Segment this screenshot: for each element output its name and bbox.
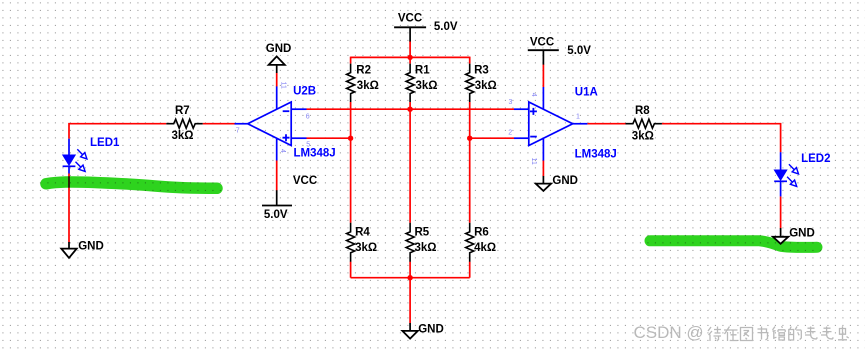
wire: LED1 cathode to GND bbox=[68, 174, 70, 243]
svg-text:R1: R1 bbox=[415, 65, 430, 77]
svg-text:7: 7 bbox=[236, 128, 240, 135]
wire: R7 to LED1 corner bbox=[69, 124, 166, 139]
svg-text:LED1: LED1 bbox=[90, 137, 120, 149]
junction: R2 column on U2B plus stub bbox=[348, 136, 353, 141]
svg-text:11: 11 bbox=[279, 82, 286, 89]
wire: R4 bottom stub bbox=[350, 262, 352, 278]
LED LED1 bbox=[63, 137, 120, 174]
svg-text:3kΩ: 3kΩ bbox=[172, 130, 194, 142]
svg-text:4kΩ: 4kΩ bbox=[474, 242, 496, 254]
svg-text:R4: R4 bbox=[355, 227, 370, 239]
wire: top bus R2-R3 bbox=[351, 56, 470, 58]
svg-text:VCC: VCC bbox=[293, 175, 317, 187]
op-amp U2B LM348J bbox=[235, 82, 336, 161]
wire: bottom bus to GND bbox=[409, 278, 411, 324]
svg-text:R7: R7 bbox=[175, 105, 190, 117]
svg-text:3kΩ: 3kΩ bbox=[475, 80, 497, 92]
svg-text:3kΩ: 3kΩ bbox=[415, 242, 437, 254]
svg-text:4: 4 bbox=[530, 93, 537, 97]
wire: U2B output to R7 bbox=[203, 123, 235, 125]
svg-text:VCC: VCC bbox=[398, 12, 422, 24]
svg-text:R5: R5 bbox=[415, 227, 430, 239]
ground GND below LED1 bbox=[61, 240, 103, 258]
svg-text:GND: GND bbox=[552, 175, 578, 187]
wire: R1 to R5 column bbox=[409, 102, 411, 223]
svg-text:11: 11 bbox=[530, 158, 537, 165]
wire: U2B top power to GND bbox=[276, 73, 278, 87]
wire: U1A minus stub from R3 column bbox=[470, 137, 514, 139]
power VCC 5.0V below U2B bbox=[262, 175, 317, 221]
ground GND bottom middle bbox=[402, 323, 443, 339]
resistor R6 4kOhm bbox=[466, 223, 496, 262]
power VCC 5.0V top middle bbox=[394, 12, 458, 41]
watermark chinese characters (drawn strokes) bbox=[708, 326, 849, 341]
svg-text:4: 4 bbox=[279, 149, 286, 153]
svg-text:GND: GND bbox=[78, 240, 104, 252]
junction: R3 column on U1A minus stub bbox=[467, 136, 472, 141]
svg-text:U2B: U2B bbox=[293, 86, 316, 98]
wire: U2B bottom power to VCC bbox=[276, 160, 278, 190]
svg-text:LM348J: LM348J bbox=[575, 149, 617, 161]
svg-text:6: 6 bbox=[306, 113, 310, 120]
wire: R2 to R4 column bbox=[350, 102, 352, 223]
resistor R3 3kOhm bbox=[466, 64, 497, 102]
svg-text:2: 2 bbox=[508, 130, 512, 137]
svg-text:5.0V: 5.0V bbox=[434, 21, 458, 33]
wire: R8 to LED2 corner bbox=[662, 124, 781, 153]
svg-text:R6: R6 bbox=[474, 227, 489, 239]
wire: bus U2B minus to U1A plus bbox=[307, 108, 515, 110]
wire: R5 bottom stub bbox=[409, 262, 411, 278]
ground GND below LED2 bbox=[773, 227, 815, 244]
ground GND above U2B bbox=[266, 43, 292, 73]
annotation: green highlighter stroke right bbox=[650, 241, 817, 248]
resistor R1 3kOhm bbox=[406, 64, 437, 102]
svg-text:3kΩ: 3kΩ bbox=[416, 80, 438, 92]
svg-text:R2: R2 bbox=[356, 65, 371, 77]
svg-text:CSDN @: CSDN @ bbox=[634, 323, 704, 342]
svg-text:U1A: U1A bbox=[575, 87, 598, 99]
svg-text:GND: GND bbox=[266, 43, 292, 55]
wire: bottom bus R4-R6 bbox=[351, 277, 470, 279]
resistor R7 3kOhm bbox=[166, 105, 202, 142]
svg-text:5.0V: 5.0V bbox=[264, 209, 288, 221]
svg-text:5.0V: 5.0V bbox=[567, 45, 591, 57]
resistor R2 3kOhm bbox=[347, 64, 379, 102]
power VCC 5.0V above U1A bbox=[528, 36, 591, 64]
svg-text:3: 3 bbox=[509, 99, 513, 106]
resistor R5 3kOhm bbox=[406, 223, 436, 262]
svg-text:GND: GND bbox=[418, 324, 444, 336]
wire: U1A output to R8 bbox=[587, 123, 625, 125]
wire: U2B plus stub to R2 column bbox=[307, 137, 351, 139]
svg-text:LED2: LED2 bbox=[801, 153, 830, 165]
wire: R1 top stub bbox=[409, 57, 411, 64]
wire: R3 top stub bbox=[469, 57, 471, 64]
wire: LED2 cathode to GND bbox=[780, 196, 782, 228]
annotation: green highlighter stroke left bbox=[46, 182, 217, 188]
svg-text:1: 1 bbox=[576, 114, 580, 121]
ground GND below U1A bbox=[536, 175, 578, 191]
LED LED2 bbox=[774, 152, 830, 196]
junction: R1 on middle bus bbox=[407, 107, 412, 112]
wire: R3 to R6 column bbox=[469, 102, 471, 223]
svg-text:VCC: VCC bbox=[530, 36, 554, 48]
svg-text:3kΩ: 3kΩ bbox=[357, 80, 379, 92]
op-amp U1A LM348J bbox=[508, 87, 617, 165]
resistor R8 3kOhm bbox=[626, 105, 662, 143]
svg-text:R8: R8 bbox=[635, 105, 650, 117]
junction: R5 on bottom bus bbox=[407, 275, 412, 280]
svg-text:LM348J: LM348J bbox=[294, 148, 336, 160]
svg-text:R3: R3 bbox=[474, 65, 489, 77]
wire: U1A top power to VCC bbox=[542, 64, 544, 87]
svg-text:3kΩ: 3kΩ bbox=[632, 131, 654, 143]
junction: VCC on top bus bbox=[407, 55, 412, 60]
watermark CSDN bbox=[634, 323, 704, 342]
wire: R2 top stub bbox=[350, 57, 352, 64]
svg-text:GND: GND bbox=[789, 227, 815, 239]
resistor R4 3kOhm bbox=[347, 223, 378, 262]
wire: VCC stem to top bus bbox=[409, 41, 411, 57]
wire: U1A bottom power to GND bbox=[542, 160, 544, 176]
svg-text:3kΩ: 3kΩ bbox=[355, 242, 377, 254]
wire: R6 bottom stub bbox=[469, 262, 471, 278]
